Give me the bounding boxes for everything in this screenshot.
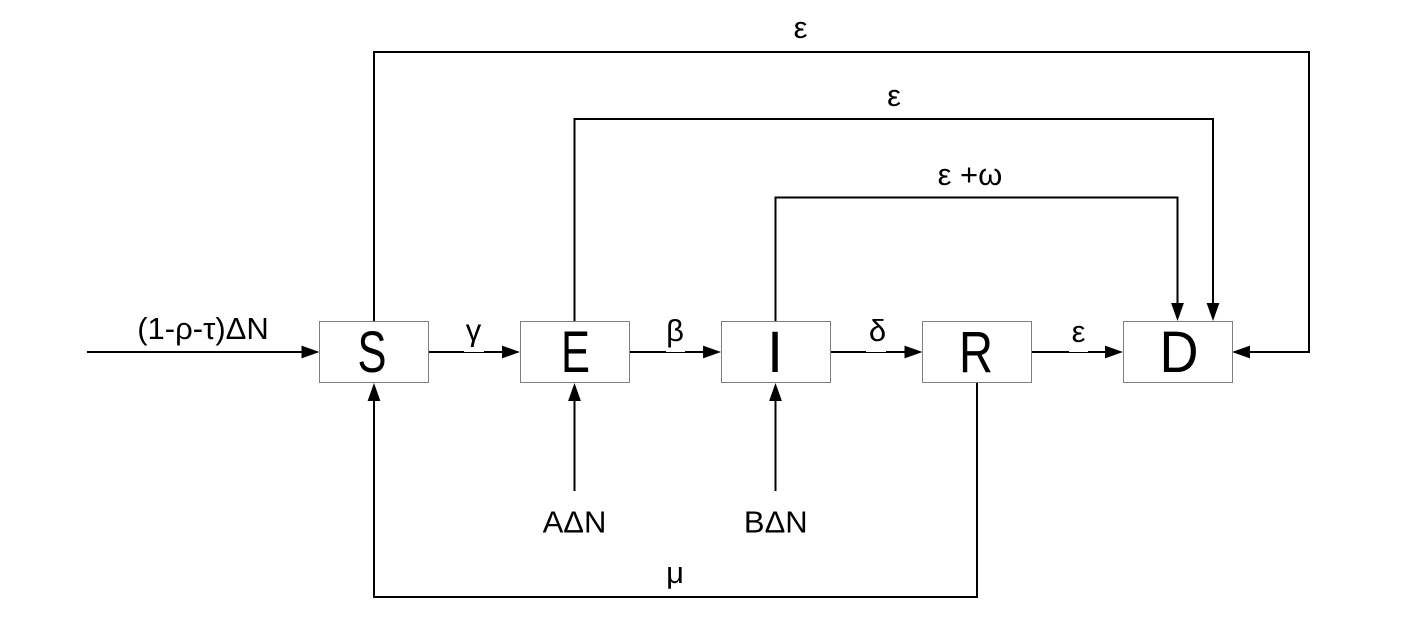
wire S to E: [429, 320, 521, 358]
wire E to D loop: [575, 119, 1220, 321]
wire R to D: [1031, 320, 1123, 358]
wire ADeltaN arrow into E: [568, 383, 581, 491]
wire BDeltaN arrow into I: [769, 383, 782, 491]
svg-text:γ: γ: [466, 313, 482, 348]
svg-text:I: I: [767, 320, 783, 385]
svg-text:ε: ε: [887, 78, 901, 113]
svg-text:AΔN: AΔN: [543, 505, 607, 540]
wire E to I: [629, 316, 721, 358]
node I: [722, 320, 831, 385]
wire S to D outer loop: [374, 52, 1309, 358]
node R: [923, 320, 1032, 385]
wire I to R: [830, 316, 923, 358]
node S: [320, 320, 429, 385]
svg-text:BΔN: BΔN: [744, 505, 808, 540]
node D: [1124, 320, 1233, 385]
svg-text:δ: δ: [869, 313, 886, 348]
svg-text:β: β: [666, 313, 684, 348]
svg-text:R: R: [959, 320, 993, 385]
wire R to S bottom loop: [368, 383, 977, 598]
svg-text:ε: ε: [1072, 314, 1086, 349]
svg-text:ε +ω: ε +ω: [938, 157, 1003, 192]
svg-text:(1-ρ-τ)ΔN: (1-ρ-τ)ΔN: [137, 311, 269, 346]
svg-text:S: S: [358, 320, 387, 385]
svg-text:E: E: [561, 320, 590, 385]
wire incoming arrow: [87, 346, 320, 359]
node E: [521, 320, 630, 385]
wire I to D loop: [776, 198, 1184, 322]
svg-text:D: D: [1160, 320, 1199, 385]
svg-text:ε: ε: [794, 10, 808, 45]
svg-text:μ: μ: [666, 555, 684, 590]
